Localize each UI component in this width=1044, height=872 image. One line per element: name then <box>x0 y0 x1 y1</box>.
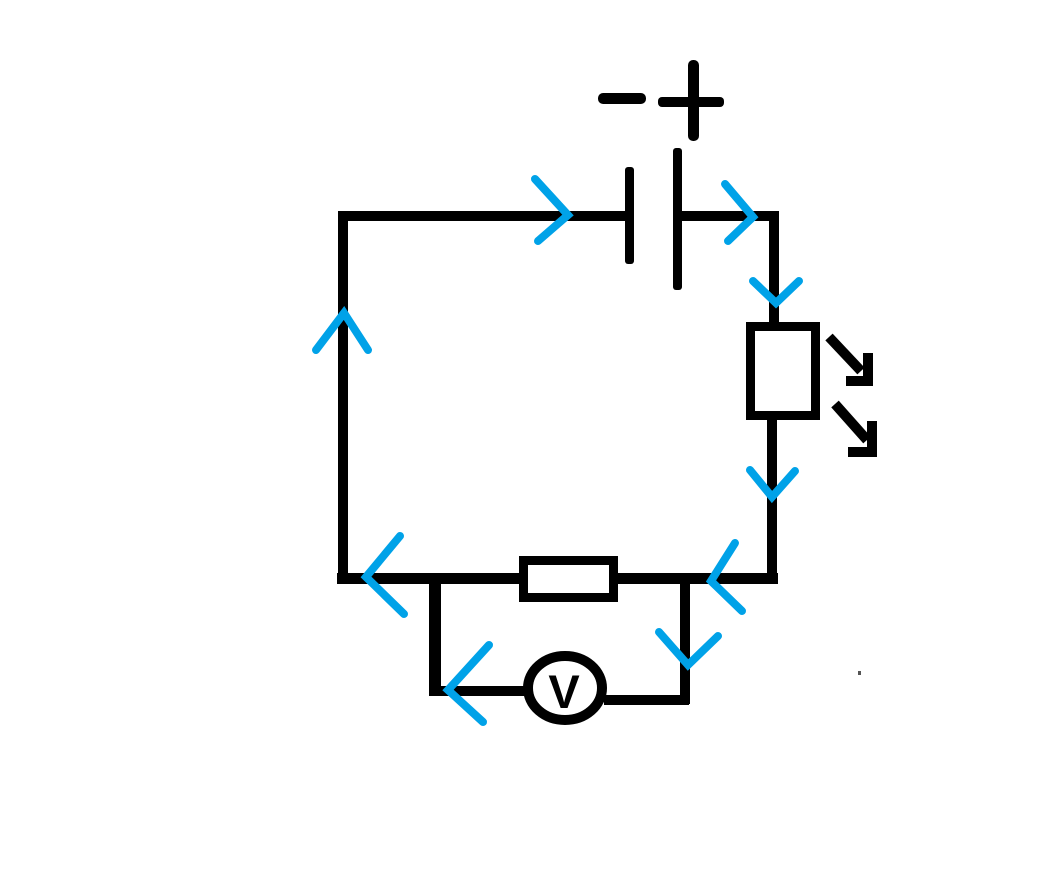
current arrow 1: on top wire left of battery (pointing right) <box>535 179 568 241</box>
battery B1 plus polarity label <box>658 60 724 141</box>
battery B1 negative plate (short) <box>625 167 634 264</box>
wire: top-left horizontal segment <box>338 211 628 221</box>
current arrow 5: on bottom wire right of resistor (pointing left) <box>711 543 742 611</box>
svg-text:V: V <box>548 665 580 718</box>
battery B1 minus polarity label <box>598 93 646 104</box>
LED D1 emitted-light arrow lower <box>835 404 872 452</box>
wire: voltmeter branch left vertical <box>429 578 441 696</box>
wire: voltmeter branch right horizontal <box>604 695 689 705</box>
wire: right lower vertical segment (lamp to bottom corner) <box>767 420 777 576</box>
current arrow 6: on bottom wire left end (pointing left) <box>366 536 404 614</box>
voltmeter V1 body <box>528 656 602 720</box>
battery B1 positive plate (long) <box>673 148 682 290</box>
wire: bottom horizontal segment <box>337 573 778 584</box>
wire: voltmeter branch right vertical <box>680 578 690 704</box>
wire: right upper vertical segment (corner to lamp) <box>769 211 779 323</box>
lamp/LED D1 body <box>751 327 816 416</box>
current arrow 3: on right wire above lamp (pointing down) <box>753 281 799 303</box>
wire: voltmeter branch left horizontal <box>429 686 524 696</box>
current arrow 8: on voltmeter left branch (pointing left) <box>448 645 489 722</box>
current arrow 4: on right wire below lamp (pointing down) <box>750 470 795 497</box>
current arrow 9: on voltmeter right branch (pointing down) <box>659 632 718 665</box>
LED D1 emitted-light arrow upper <box>829 337 868 381</box>
current arrow 2: on top wire right of battery (pointing right) <box>725 184 753 241</box>
current arrow 7: on left wire (pointing up) <box>316 313 368 350</box>
wire: top-right horizontal segment <box>678 211 778 221</box>
stray ink dot <box>858 671 861 675</box>
wire: left vertical segment <box>338 211 348 583</box>
resistor R1 body <box>524 561 614 598</box>
